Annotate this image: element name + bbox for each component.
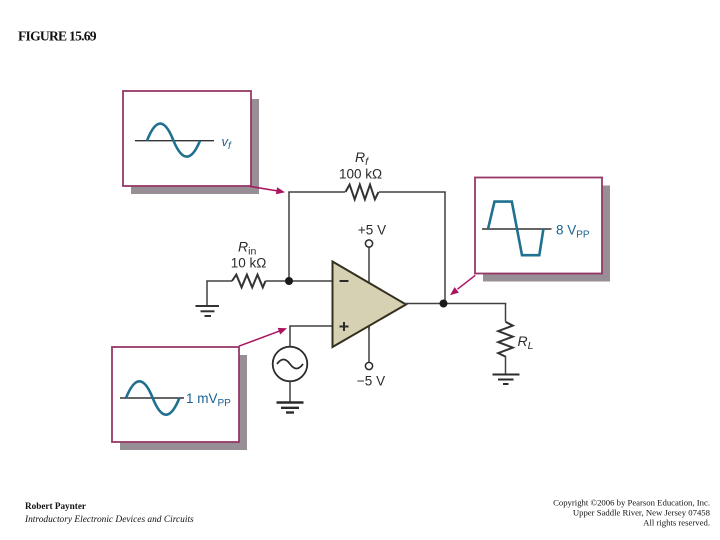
wire: feedback top right segment — [379, 191, 446, 193]
wire: -5V supply vertical — [368, 300, 370, 363]
svg-text:+5 V: +5 V — [358, 223, 386, 238]
scope box 1 shadow — [131, 99, 259, 194]
ground (load) — [493, 375, 520, 385]
source V1 sine generator — [273, 347, 308, 382]
wire: RL bottom vertical — [505, 356, 507, 374]
node A junction dot — [285, 277, 293, 285]
svg-text:10 kΩ: 10 kΩ — [231, 256, 267, 271]
wire: source bottom vertical — [289, 381, 291, 402]
op-amp U1 triangle — [333, 262, 407, 348]
svg-text:All rights reserved.: All rights reserved. — [643, 518, 710, 528]
node B output junction dot — [440, 300, 448, 308]
-5V terminal circle — [365, 362, 372, 369]
wire: feedback left vertical (node A up) — [288, 192, 290, 281]
resistor RL zigzag — [498, 322, 513, 357]
svg-text:Copyright ©2006 by Pearson Edu: Copyright ©2006 by Pearson Education, In… — [553, 498, 710, 508]
ground (source) — [277, 403, 304, 413]
svg-text:100 kΩ: 100 kΩ — [339, 167, 382, 182]
wire: feedback top left segment — [288, 191, 345, 193]
box3 waveform axis — [482, 228, 552, 230]
box1 sine wave vf — [147, 124, 200, 157]
ground (input side) — [196, 306, 220, 316]
scope box 2 (1 mVpp input waveform) — [112, 347, 239, 442]
wire: input horizontal (ground to Rin) — [206, 280, 232, 282]
scope box 1 (vf waveform) — [123, 91, 251, 186]
wire: source top vertical — [289, 326, 291, 347]
svg-text:Robert Paynter: Robert Paynter — [25, 501, 86, 511]
box3 clipped output waveform — [488, 202, 543, 256]
svg-text:FIGURE 15.69: FIGURE 15.69 — [18, 29, 97, 44]
wire: non-inverting input horizontal — [289, 325, 333, 327]
wire: output horizontal — [404, 303, 506, 305]
op-amp inverting pin minus sign — [340, 280, 349, 282]
svg-text:Rf: Rf — [355, 149, 369, 168]
box2 sine wave — [126, 381, 179, 414]
wire: input left vertical to ground — [206, 281, 208, 305]
scope box 3 (8 Vpp output waveform) — [475, 178, 602, 274]
wire: RL top vertical — [505, 304, 507, 322]
wire: +5V supply vertical — [368, 247, 370, 330]
wire: feedback right vertical — [444, 192, 446, 304]
svg-text:RL: RL — [518, 333, 534, 352]
op-amp non-inverting pin plus sign — [340, 322, 349, 331]
box1 waveform axis — [135, 140, 214, 142]
svg-text:Introductory Electronic Device: Introductory Electronic Devices and Circ… — [24, 515, 194, 525]
resistor Rf zigzag — [346, 185, 379, 200]
scope box 3 shadow — [483, 186, 610, 282]
wire: input horizontal (Rin to op-amp inverting input) — [266, 280, 334, 282]
box2 waveform axis — [120, 397, 184, 399]
svg-text:Upper Saddle River, New Jersey: Upper Saddle River, New Jersey 07458 — [573, 508, 711, 518]
resistor Rin zigzag — [232, 275, 266, 288]
arrow from box1 to feedback wire — [250, 186, 285, 194]
svg-text:−5 V: −5 V — [357, 374, 385, 389]
arrow from box3 to output node — [450, 275, 475, 295]
arrow from box2 to non-inverting input — [239, 328, 287, 346]
scope box 2 shadow — [120, 355, 247, 450]
+5V terminal circle — [365, 240, 372, 247]
